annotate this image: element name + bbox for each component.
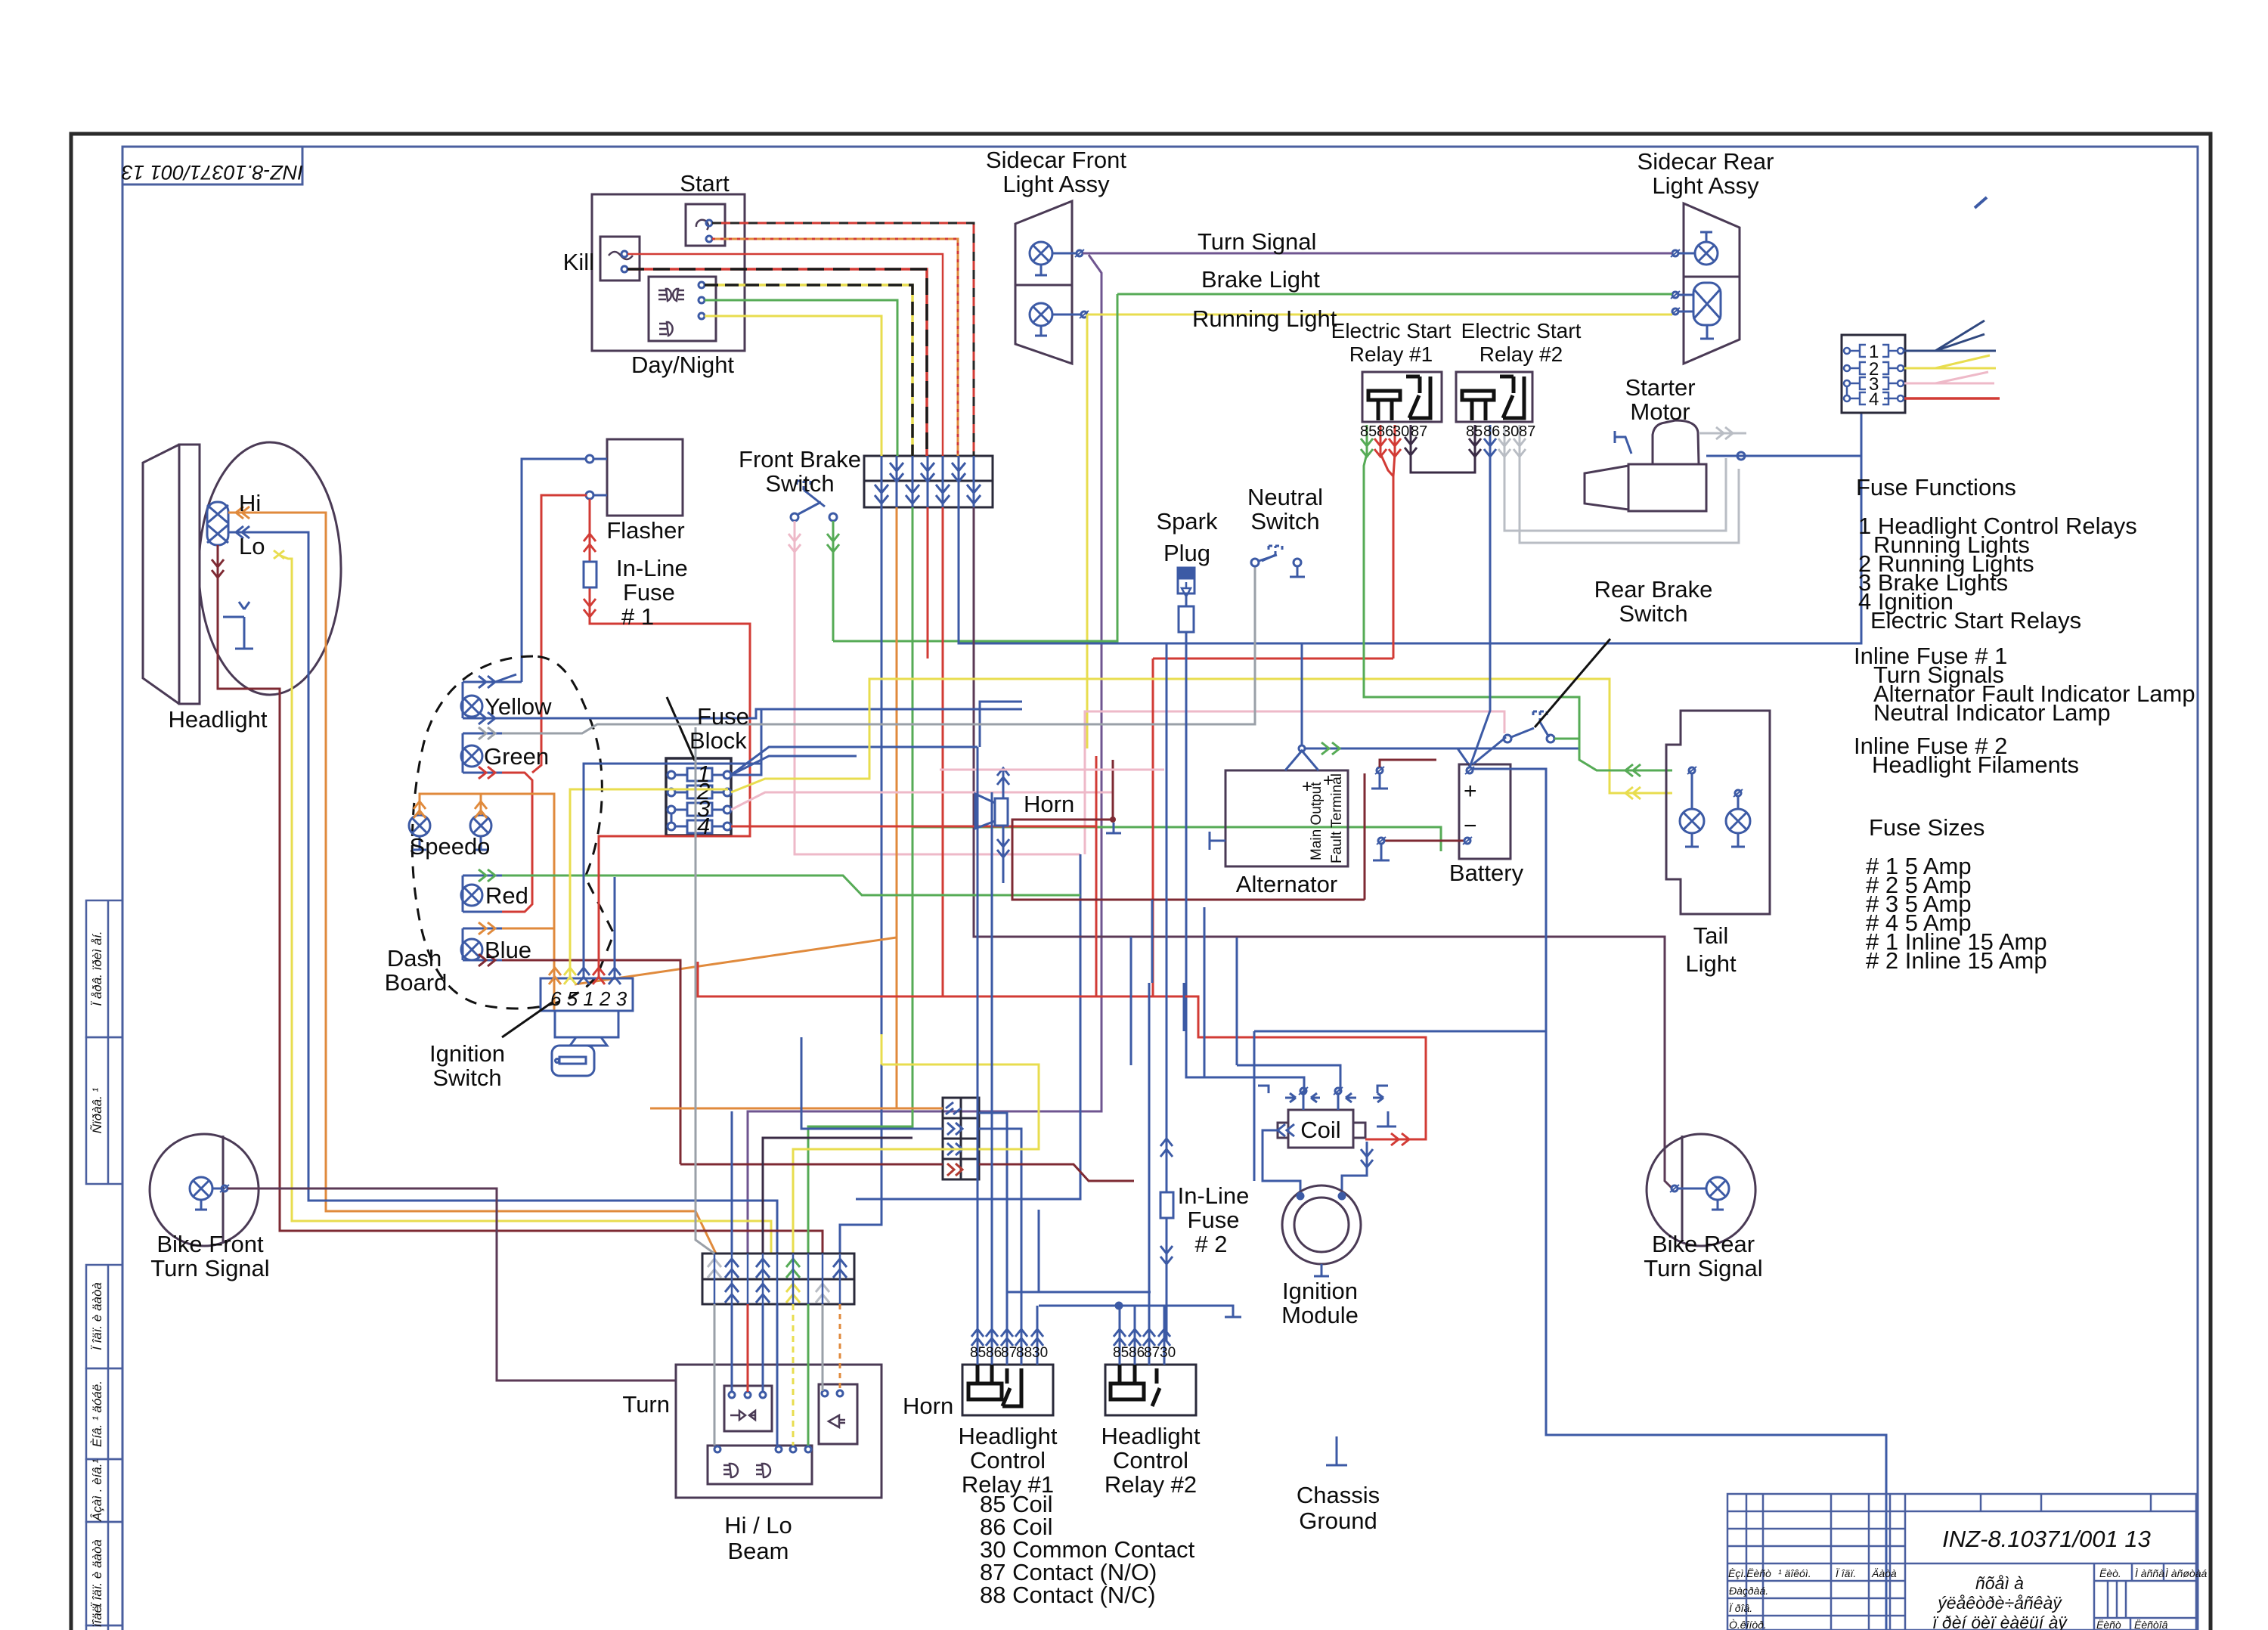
svg-text:Flasher: Flasher	[606, 517, 684, 544]
wire: orange from blue lamp top	[502, 928, 554, 930]
wire: orange speedo rail to ignition pin6	[420, 794, 554, 1011]
svg-text:Red: Red	[485, 882, 528, 909]
dash lamp green	[461, 733, 502, 773]
wire: green from red lamp top	[502, 875, 1080, 895]
chassis connector near alternator	[1377, 767, 1383, 773]
dash lamp blue	[461, 928, 502, 960]
sidecar front light assy housing	[1015, 201, 1072, 364]
svg-text:85: 85	[1466, 423, 1483, 440]
wire: red branch left of flasher	[532, 495, 587, 773]
svg-text:Electric Start: Electric Start	[1461, 319, 1582, 342]
svg-text:86: 86	[986, 1345, 1002, 1361]
svg-text:Lo: Lo	[239, 533, 265, 559]
wire: pink from fuse row3	[1904, 372, 1994, 383]
svg-text:85: 85	[970, 1345, 986, 1361]
ignition module	[1282, 1185, 1361, 1264]
wire: coil right to ignition module	[1342, 1142, 1367, 1193]
wire: relay2 86 blue	[1489, 425, 1492, 476]
in-line fuse 1 body	[584, 562, 596, 587]
wire: green relay1-85 to rear brake to tail	[1364, 473, 1579, 736]
top-left stamp box	[122, 147, 302, 184]
svg-text:Plug: Plug	[1163, 540, 1210, 566]
svg-text:86: 86	[1483, 423, 1500, 440]
mid harness connector (4-slot)	[943, 1098, 979, 1179]
connector pass wires	[714, 1253, 840, 1304]
arrows red on fuse wire	[584, 534, 596, 552]
wire: yellow headlight feed	[274, 550, 771, 1253]
svg-text:Ï îäï.: Ï îäï.	[1836, 1567, 1856, 1579]
svg-text:Ðàçðàá.: Ðàçðàá.	[1729, 1585, 1768, 1597]
headlight control relay 1	[962, 1365, 1053, 1415]
svg-text:Ñïðàâ. ¹: Ñïðàâ. ¹	[90, 1087, 104, 1133]
main harness connector (upper)	[864, 456, 993, 507]
svg-text:88 Contact (N/C): 88 Contact (N/C)	[980, 1582, 1156, 1608]
wire: blue exits to relay bus	[979, 1113, 1021, 1292]
svg-text:Fuse: Fuse	[623, 579, 675, 606]
wire: grey starter output	[1699, 432, 1746, 435]
wire: red from green lamp bottom loop to red lamp	[502, 773, 532, 912]
wire: pink from fuse3	[731, 792, 1113, 810]
svg-text:Switch: Switch	[765, 470, 834, 497]
handlebar switch assembly (Start / Kill / Day-Night) outer box	[592, 194, 745, 351]
relay1 pin arrows	[971, 1329, 1043, 1365]
svg-text:Alternator: Alternator	[1236, 871, 1337, 897]
wire: orange into mid connector	[650, 937, 943, 1108]
wire: red from coil to distribution	[698, 962, 1426, 1139]
arrow blue <<	[236, 526, 249, 538]
svg-text:INZ-8.10371/001 13: INZ-8.10371/001 13	[122, 161, 303, 184]
headlight housing	[143, 442, 341, 704]
wire: yellow drop from running light	[1086, 315, 1089, 748]
relay2 pin arrows	[1114, 1329, 1170, 1365]
wire: start red/black dashed	[712, 223, 974, 456]
svg-text:Control: Control	[970, 1447, 1046, 1474]
svg-text:Äàòà: Äàòà	[1871, 1567, 1897, 1579]
svg-text:Èíâ. ¹ äóáë.: Èíâ. ¹ äóáë.	[90, 1381, 104, 1447]
wire: running light (yellow) to sidecar rear	[1087, 314, 1672, 316]
callout ignition switch	[502, 1002, 552, 1037]
sidecar front running lamp	[1030, 303, 1089, 336]
wire: red ignition 2	[599, 836, 750, 978]
wire: blue from yellow lamp bottom rail	[502, 709, 764, 718]
svg-text:Ëèñò: Ëèñò	[2096, 1619, 2121, 1630]
svg-text:Sidecar Front: Sidecar Front	[986, 147, 1126, 173]
wire: blue battery + to bike rear drop	[1473, 769, 1886, 1630]
fuse block	[666, 758, 731, 835]
horn switch box	[819, 1384, 857, 1444]
svg-text:Yellow: Yellow	[485, 693, 552, 720]
alternator box	[1225, 770, 1348, 866]
wire: green vertical brake branch	[833, 294, 1117, 641]
wire: yellow from fuse row2	[1904, 355, 1996, 368]
wire: blue starter node to fuse box	[1706, 455, 1861, 457]
wire: blue dash yellow lamp top to flasher drop	[495, 674, 522, 682]
svg-text:Headlight: Headlight	[1101, 1423, 1201, 1449]
svg-text:Green: Green	[484, 743, 549, 770]
battery + pin	[1467, 767, 1473, 773]
svg-text:¹ äîêóì.: ¹ äîêóì.	[1778, 1567, 1811, 1579]
svg-text:+: +	[1302, 776, 1312, 797]
wire: green 1207	[912, 507, 1441, 851]
svg-text:Battery: Battery	[1449, 860, 1524, 886]
wire: day/night yellow	[705, 316, 881, 456]
svg-text:Bike Rear: Bike Rear	[1652, 1231, 1755, 1257]
wire: grey into connector from dash	[696, 727, 714, 1253]
svg-text:Electric Start: Electric Start	[1331, 319, 1452, 342]
svg-text:# 2: # 2	[1194, 1231, 1227, 1257]
chassis ground symbol	[1326, 1436, 1347, 1465]
tail light housing	[1666, 711, 1770, 914]
coil top pins	[1258, 1086, 1396, 1126]
svg-text:Âçàì . èíâ.¹: Âçàì . èíâ.¹	[90, 1459, 104, 1523]
starter lever	[1615, 431, 1631, 454]
svg-text:Bike Front: Bike Front	[156, 1231, 264, 1257]
ignition switch terminal box	[541, 978, 633, 1076]
electric start relay #1 internals	[1368, 377, 1430, 420]
svg-text:Light: Light	[1685, 950, 1737, 977]
svg-text:30: 30	[1502, 423, 1519, 440]
electric start relay #2 box	[1456, 372, 1532, 422]
wire: grey from green lamp top	[502, 566, 1255, 733]
alternator case ground	[1210, 832, 1225, 850]
fuse connector block top right	[1842, 335, 1905, 413]
svg-text:Board: Board	[385, 969, 448, 996]
wire: maroon staircase alternator-battery	[1012, 760, 1365, 900]
wire: red fuse4 feed	[731, 756, 1096, 996]
wire: relay1 86+30 red merge	[1380, 425, 1395, 659]
wire: kill black/red dashed	[627, 269, 927, 456]
right-hand text block	[1854, 474, 2195, 974]
connector lower arrows	[708, 1259, 847, 1303]
svg-text:Switch: Switch	[1619, 600, 1687, 627]
headlight internal ground	[223, 602, 253, 649]
relay bus wires	[978, 747, 1241, 1329]
svg-text:Brake Light: Brake Light	[1201, 266, 1320, 293]
wire: orange 1186	[575, 507, 897, 984]
svg-text:Day/Night: Day/Night	[631, 352, 734, 378]
svg-text:Ignition: Ignition	[1282, 1278, 1358, 1304]
flasher box	[607, 439, 683, 516]
wire: blue coil top feeds	[1237, 1065, 1340, 1092]
wire: purple drop from turn signal line	[748, 255, 1101, 1253]
svg-text:Tail: Tail	[1693, 922, 1729, 949]
wire: relay2 30 grey loop to starter	[1504, 425, 1726, 531]
svg-text:87: 87	[1411, 423, 1427, 440]
coil box	[1288, 1110, 1353, 1148]
wire: blue ignition 3	[614, 877, 616, 978]
wire: green rear brake to tail light	[1554, 736, 1672, 770]
svg-text:ýëåêòðè÷åñêàÿ: ýëåêòðè÷åñêàÿ	[1936, 1593, 2062, 1613]
wire: blue to Lo filament	[228, 532, 777, 1253]
wire: relay1 87 to relay2 85	[1411, 425, 1475, 473]
in-line fuse 2	[1160, 643, 1173, 1340]
wire: yellow from fuse2	[731, 679, 1672, 793]
flasher pin 1	[586, 455, 593, 463]
svg-text:30: 30	[1160, 1345, 1176, 1361]
svg-text:Turn Signal: Turn Signal	[1198, 228, 1316, 255]
headlight control relay 2	[1105, 1365, 1196, 1415]
bike rear turn signal	[1647, 1134, 1755, 1246]
wire: pink from front brake switch	[795, 521, 1080, 854]
svg-text:Headlight: Headlight	[169, 706, 268, 733]
svg-text:Block: Block	[689, 727, 747, 754]
front brake switch	[791, 481, 837, 521]
wire: dark red from blue lamp bottom	[502, 960, 680, 1164]
svg-text:4: 4	[1869, 389, 1879, 410]
svg-text:Hi / Lo: Hi / Lo	[724, 1512, 792, 1539]
wire: day/night yellow-black dashed	[705, 285, 912, 456]
wire: maroon row4	[680, 1164, 1134, 1181]
svg-text:Relay #1: Relay #1	[1349, 342, 1433, 366]
svg-text:Module: Module	[1281, 1302, 1359, 1328]
wire: blue fan from fuse1 right pin	[731, 702, 1022, 775]
svg-text:Turn Signal: Turn Signal	[150, 1255, 269, 1281]
sidecar front turn lamp	[1030, 242, 1084, 275]
callout rear brake switch	[1535, 639, 1610, 727]
wire: day/night green	[705, 300, 897, 456]
svg-text:Turn: Turn	[622, 1391, 670, 1418]
wire: kill red	[627, 254, 943, 456]
svg-text:Ëèò.: Ëèò.	[2099, 1567, 2121, 1579]
svg-text:Ò.êîíòð.: Ò.êîíòð.	[1729, 1619, 1767, 1630]
arrow green on alternator feed	[1321, 742, 1340, 755]
svg-text:Headlight Filaments: Headlight Filaments	[1872, 751, 2079, 778]
wire: pink horn feed	[940, 769, 1164, 771]
wire: coil left to ignition module	[1263, 1130, 1300, 1193]
svg-text:Light Assy: Light Assy	[1652, 172, 1759, 199]
svg-text:Kill: Kill	[563, 249, 594, 275]
wire: blue mid verticals	[1131, 900, 1184, 1065]
svg-text:Coil: Coil	[1300, 1117, 1340, 1143]
spark plug (engine)	[1178, 568, 1304, 1092]
svg-text:Ï ðîâ.: Ï ðîâ.	[1729, 1602, 1752, 1614]
svg-text:Ëèñòîâ: Ëèñòîâ	[2134, 1619, 2168, 1630]
svg-text:Fuse: Fuse	[1188, 1207, 1240, 1233]
wire: relay2 87 grey loop to starter	[1520, 425, 1739, 543]
callout line fuse block	[667, 697, 695, 761]
svg-text:Ì àññà: Ì àññà	[2135, 1567, 2164, 1579]
horn (center)	[975, 768, 1009, 883]
turn switch box	[724, 1386, 772, 1431]
wire: blue battery+ to rear brake switch	[1473, 737, 1506, 764]
svg-text:−: −	[1464, 813, 1477, 838]
electric start relay #1 box	[1362, 372, 1442, 422]
svg-text:86: 86	[1377, 423, 1393, 440]
wire: bike front turn signal feed	[228, 1188, 676, 1381]
wire: blue 1268	[959, 413, 1861, 643]
svg-text:30: 30	[1393, 423, 1409, 440]
svg-text:Start: Start	[680, 170, 730, 197]
battery - wire to chassis	[1384, 840, 1465, 842]
arrows into ignition switch	[549, 968, 561, 984]
svg-text:85: 85	[1360, 423, 1377, 440]
svg-text:Switch: Switch	[432, 1064, 501, 1091]
flasher pin 2	[586, 491, 593, 499]
wire: green branch to connector	[808, 827, 912, 1253]
wire: orange to Hi filament	[228, 513, 716, 1253]
wire: blue ignition 1	[584, 764, 761, 978]
svg-text:Front Brake: Front Brake	[739, 446, 861, 473]
svg-text:Ï îäï. è äàòà: Ï îäï. è äàòà	[90, 1282, 104, 1350]
svg-text:Neutral Indicator Lamp: Neutral Indicator Lamp	[1873, 699, 2111, 726]
wire: brake light (green) to sidecar rear	[1117, 293, 1672, 296]
wire: fan-out blue from fuse row1	[1904, 321, 1996, 351]
wire: relay1 85 green tail	[1364, 425, 1367, 473]
svg-text:Motor: Motor	[1630, 398, 1690, 425]
svg-text:Headlight: Headlight	[959, 1423, 1058, 1449]
svg-text:Running Light: Running Light	[1192, 305, 1337, 332]
wire: green from front brake switch	[832, 521, 835, 641]
svg-text:6 5 1 2 3: 6 5 1 2 3	[550, 987, 627, 1010]
bike front turn signal	[150, 1134, 259, 1246]
svg-text:Ï åðâ. ïðèì åí.: Ï åðâ. ïðèì åí.	[90, 931, 104, 1006]
svg-text:+: +	[1464, 779, 1477, 804]
arrows yellow into tail light	[1625, 787, 1641, 799]
svg-text:In-Line: In-Line	[616, 555, 688, 581]
wire: blue flasher to dash	[522, 459, 607, 682]
wire: red 1247	[942, 507, 944, 996]
speedo lamps	[409, 815, 491, 850]
day/night switch box	[649, 277, 716, 341]
svg-text:Horn: Horn	[1024, 791, 1074, 817]
day/night icons	[658, 289, 684, 336]
svg-text:88: 88	[1016, 1345, 1032, 1361]
mark: small blue slash top right	[1975, 197, 1987, 208]
svg-text:Control: Control	[1113, 1447, 1188, 1474]
kill switch box	[600, 237, 640, 280]
hi/lo switch box	[708, 1446, 812, 1484]
arrow orange <<	[236, 507, 249, 519]
svg-text:INZ-8.10371/001 13: INZ-8.10371/001 13	[1942, 1526, 2151, 1552]
svg-text:Beam: Beam	[728, 1538, 789, 1564]
svg-text:Fuse Sizes: Fuse Sizes	[1869, 814, 1984, 841]
sidecar rear turn lamp	[1671, 232, 1718, 265]
svg-text:Blue: Blue	[485, 937, 531, 963]
svg-text:Turn Signal: Turn Signal	[1644, 1255, 1762, 1281]
rear brake switch	[1504, 711, 1554, 742]
svg-text:# 1: # 1	[621, 603, 654, 630]
wire: dark red 1288 to bike rear turn signal	[974, 507, 1672, 1188]
wire: turn signal (purple) sidecar front to rear	[1083, 253, 1672, 255]
svg-text:Fuse Functions: Fuse Functions	[1856, 474, 2016, 500]
headlight hi/lo bulb	[207, 502, 228, 545]
electric start relay #2 internals	[1462, 377, 1524, 420]
svg-text:87: 87	[1144, 1345, 1160, 1361]
svg-text:Ground: Ground	[1299, 1508, 1377, 1534]
wire: red 1227	[928, 507, 1393, 996]
svg-text:87: 87	[1519, 423, 1535, 440]
dash board dashed outline	[412, 656, 614, 1009]
wire: blue relay2-86 down to battery +	[1470, 476, 1490, 767]
wire: start orange dotted red	[712, 239, 958, 456]
sidecar rear light assy housing	[1684, 203, 1740, 364]
svg-text:Relay #2: Relay #2	[1105, 1471, 1197, 1498]
dash lamp red	[461, 875, 502, 912]
svg-text:Light Assy: Light Assy	[1002, 171, 1110, 197]
svg-text:Switch: Switch	[1250, 508, 1319, 535]
wire: blue into mid connector	[801, 1037, 943, 1129]
connector arrows blue	[875, 456, 981, 507]
start switch box	[686, 204, 725, 246]
battery box	[1459, 764, 1510, 859]
left margin cells	[86, 900, 122, 1630]
wire: dark red from bulb to ground run	[218, 545, 823, 1253]
title block	[1727, 1494, 2196, 1630]
wires inside housing	[714, 1304, 716, 1446]
wire: dark 1009 from mid harness	[763, 1138, 912, 1253]
svg-text:Spark: Spark	[1157, 508, 1218, 535]
svg-text:Fuse: Fuse	[697, 703, 749, 730]
svg-text:Neutral: Neutral	[1247, 484, 1323, 510]
handlebar connector (lower)	[702, 1253, 854, 1304]
wire: red from fuse row4 down right side	[1904, 397, 2000, 400]
svg-text:Chassis: Chassis	[1297, 1482, 1380, 1508]
wire: red through in-line fuse 1	[590, 499, 750, 836]
svg-text:Starter: Starter	[1625, 374, 1695, 401]
svg-text:87: 87	[1001, 1345, 1017, 1361]
svg-text:Ï îäï. è äàòà: Ï îäï. è äàòà	[90, 1539, 104, 1607]
svg-text:Hi: Hi	[239, 490, 261, 516]
sidecar rear brake/running double-filament lamp	[1671, 283, 1721, 339]
svg-text:85: 85	[1113, 1345, 1129, 1361]
svg-text:+: +	[1323, 770, 1334, 791]
wire: blue 1166	[840, 507, 881, 1253]
svg-text:Horn: Horn	[903, 1393, 953, 1419]
svg-text:Sidecar Rear: Sidecar Rear	[1637, 148, 1774, 175]
svg-text:Speedo: Speedo	[410, 833, 491, 860]
svg-text:In-Line: In-Line	[1178, 1182, 1250, 1209]
neutral switch	[1251, 546, 1305, 577]
switch housing (turn/horn/hi-lo)	[676, 1365, 881, 1498]
wire: yellow ignition 5	[570, 789, 728, 978]
svg-text:Electric Start Relays: Electric Start Relays	[1870, 607, 2081, 634]
alternator top node	[1285, 643, 1579, 770]
starter motor body	[1585, 420, 1706, 511]
svg-text:Èíâ.¹ ïîäë.: Èíâ.¹ ïîäë.	[90, 1602, 104, 1630]
svg-text:# 2 Inline 15 Amp: # 2 Inline 15 Amp	[1866, 947, 2047, 974]
svg-text:ñõåì à: ñõåì à	[1975, 1573, 2024, 1593]
svg-text:Dash: Dash	[387, 945, 442, 971]
tail lamps	[1680, 767, 1750, 847]
wire: blue 968 from mid harness	[731, 1111, 733, 1253]
dash lamp yellow	[461, 676, 502, 724]
svg-text:Ignition: Ignition	[429, 1040, 505, 1067]
svg-text:ï ðèí öèï èàëüí àÿ: ï ðèí öèï èàëüí àÿ	[1932, 1613, 2068, 1630]
wire: yellow through mid connector	[793, 1034, 1039, 1253]
wire: long blue lower mid	[1254, 1030, 1546, 1033]
svg-text:Èçì.Ëèñò: Èçì.Ëèñò	[1728, 1567, 1771, 1579]
svg-text:86: 86	[1129, 1345, 1145, 1361]
svg-text:Ì àñøòàá: Ì àñøòàá	[2165, 1567, 2207, 1579]
svg-text:30: 30	[1032, 1345, 1048, 1361]
arrows green into tail	[1625, 764, 1641, 776]
svg-text:Rear Brake: Rear Brake	[1594, 576, 1713, 603]
svg-text:Relay #2: Relay #2	[1479, 342, 1563, 366]
arrow darkred down	[212, 559, 224, 578]
